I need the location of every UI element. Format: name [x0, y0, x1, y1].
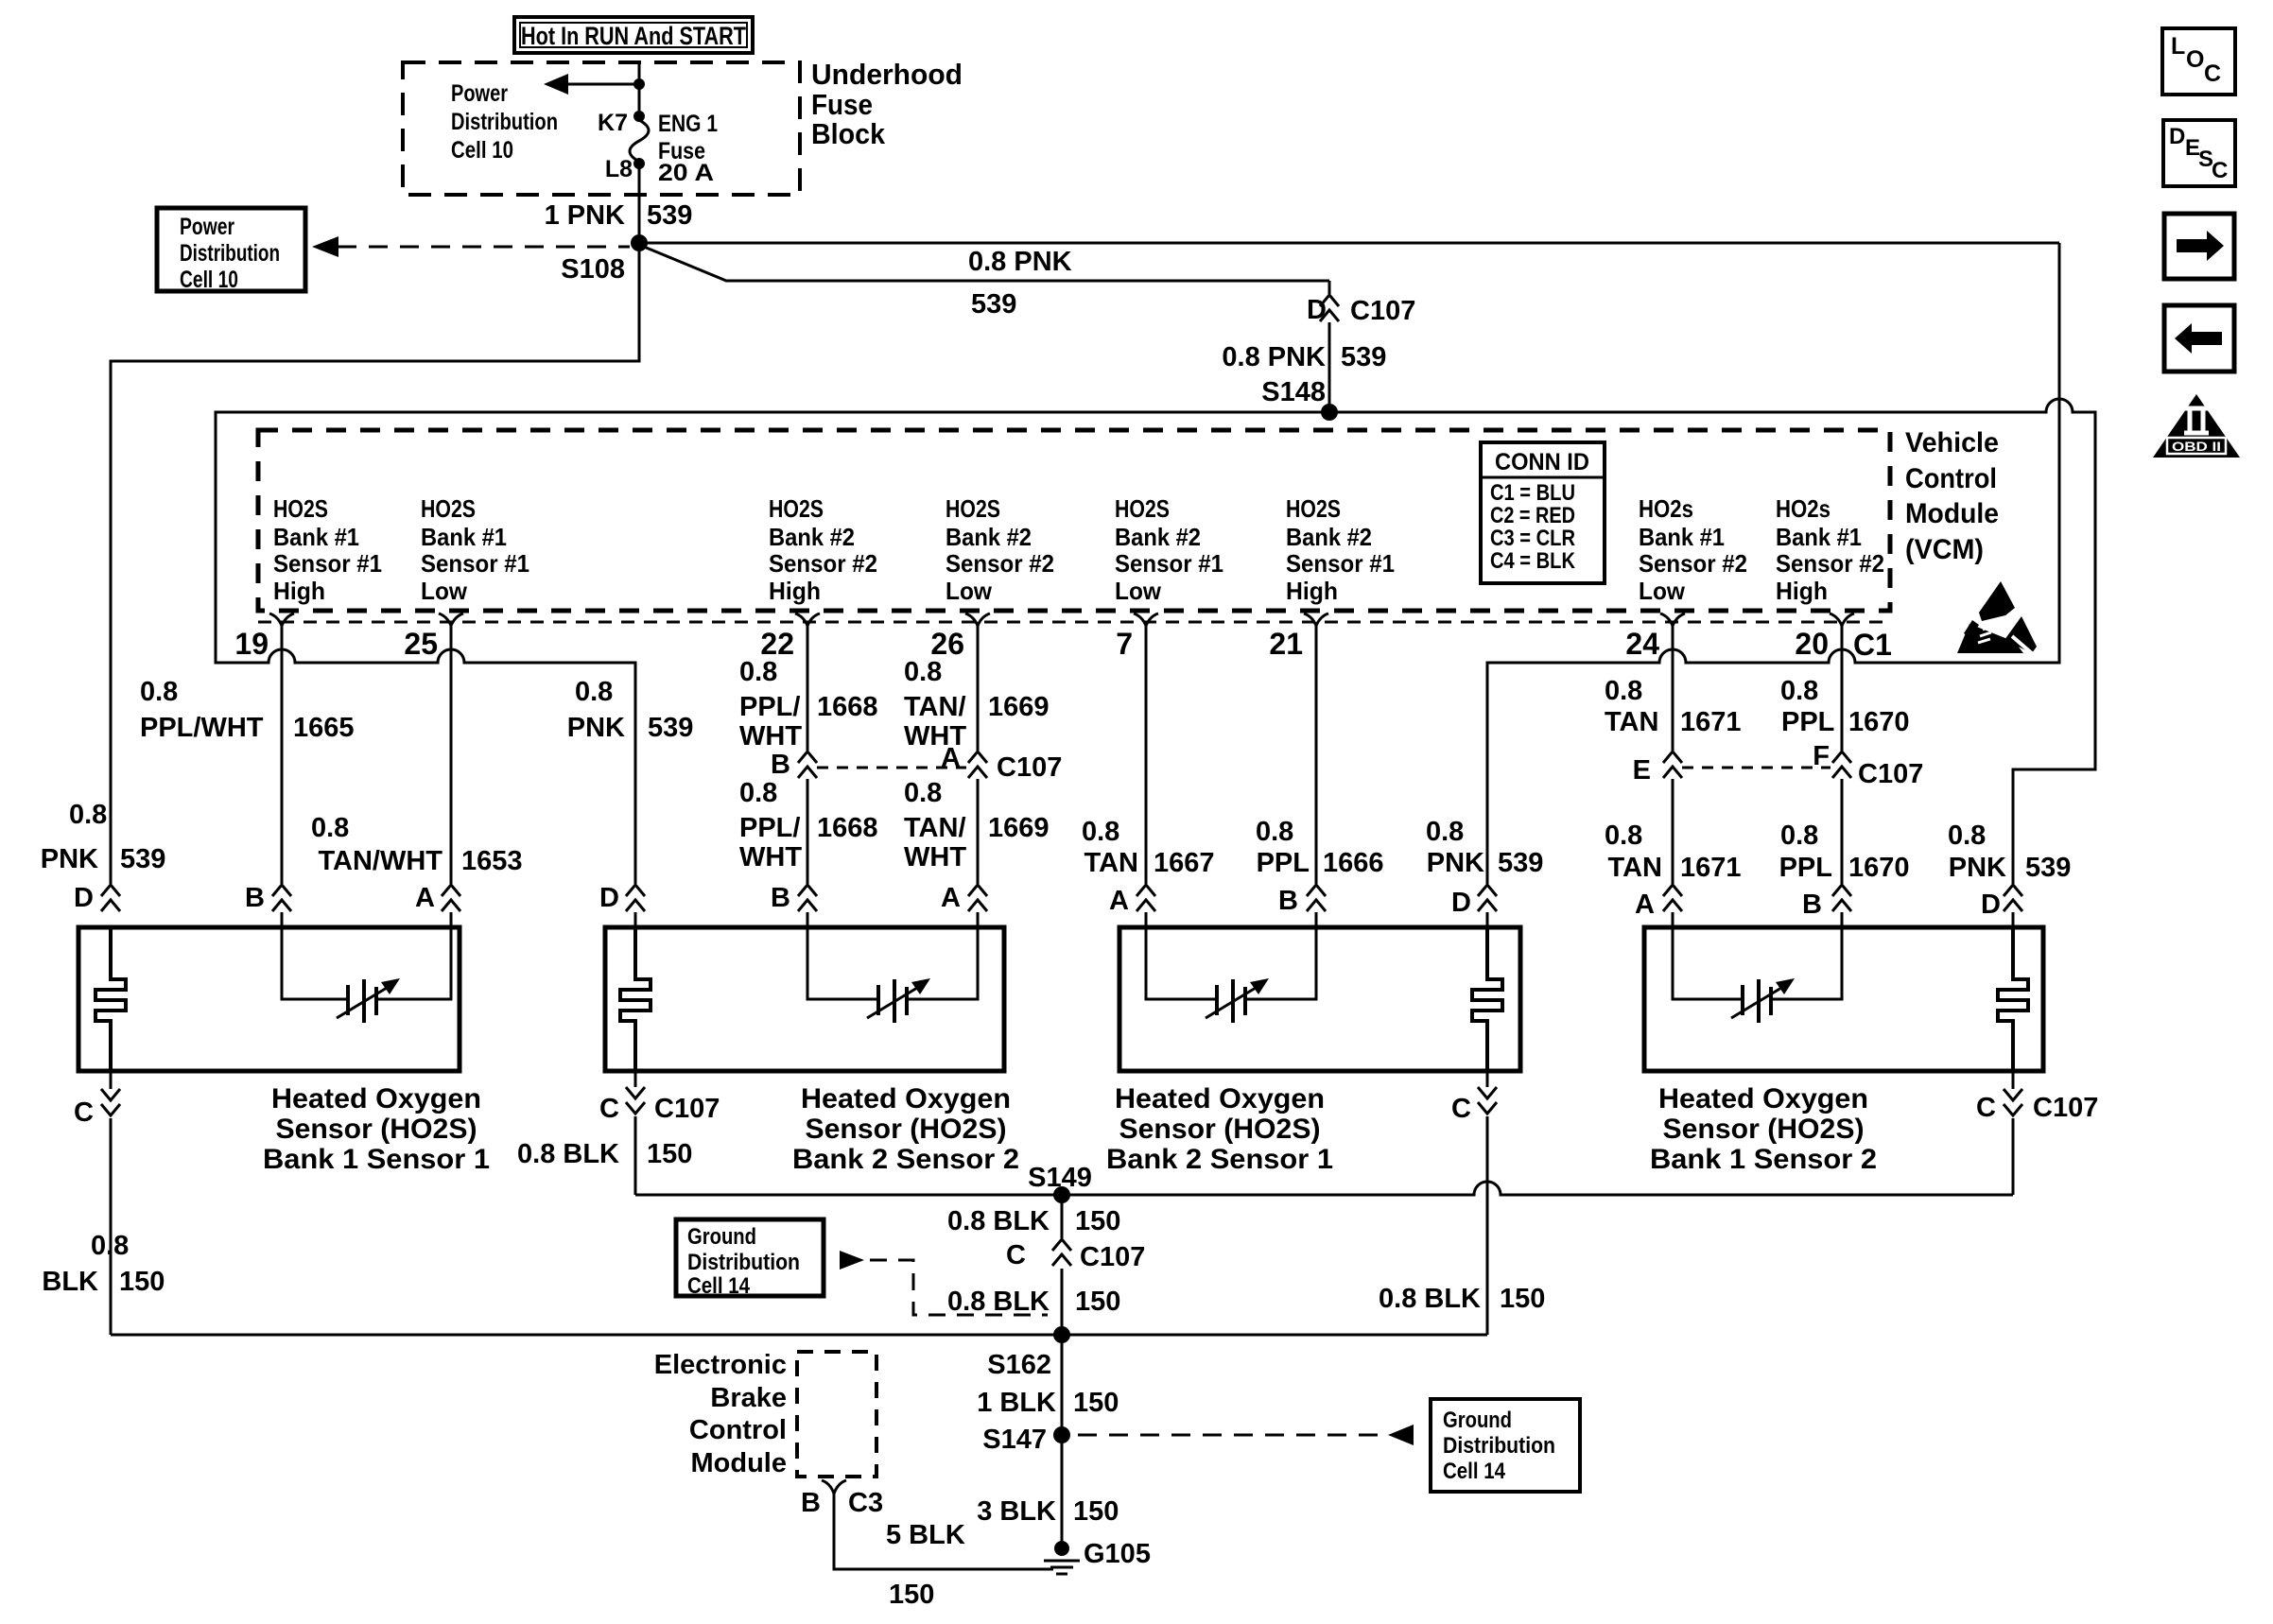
svg-text:TAN/: TAN/	[904, 813, 966, 843]
svg-text:Bank 2 Sensor 2: Bank 2 Sensor 2	[792, 1144, 1019, 1175]
sensor pin D chevrons at x=672	[626, 885, 645, 911]
svg-text:Heated Oxygen: Heated Oxygen	[1658, 1083, 1868, 1114]
svg-text:L: L	[2171, 33, 2185, 60]
svg-text:C4 = BLK: C4 = BLK	[1490, 548, 1576, 574]
svg-text:150: 150	[1075, 1206, 1120, 1236]
svg-text:0.8 BLK: 0.8 BLK	[517, 1139, 619, 1169]
svg-text:Bank 2 Sensor 1: Bank 2 Sensor 1	[1106, 1144, 1333, 1175]
svg-text:High: High	[1286, 577, 1338, 605]
svg-text:PNK: PNK	[1949, 853, 2006, 883]
label 0.8 PPL/WHT 1668 (pin 22 wire upper)	[739, 657, 878, 752]
svg-text:B: B	[801, 1488, 821, 1518]
dashed wire S108 to power distribution with arrow	[312, 236, 630, 257]
svg-text:0.8: 0.8	[69, 800, 107, 830]
sensor element wires and variable voltage cell between x=298 and x=477	[282, 927, 451, 1023]
label 0.8 PNK 539 (sensor 3 pin D)	[1426, 817, 1543, 878]
label 0.8 PPL/WHT 1668 (sensor 2 pin B lower)	[739, 778, 878, 872]
VCM pin 25 bracket	[439, 613, 463, 626]
icon forward arrow box	[2164, 214, 2234, 279]
splice S149 dot	[1053, 1186, 1070, 1203]
svg-text:C: C	[74, 1097, 94, 1128]
svg-text:1667: 1667	[1154, 848, 1215, 878]
svg-text:0.8: 0.8	[904, 778, 942, 808]
svg-text:TAN: TAN	[1608, 853, 1662, 883]
svg-text:Underhood: Underhood	[811, 58, 963, 91]
label 0.8 BLK 150 (sensor 2 ground)	[517, 1139, 692, 1169]
svg-text:C1 = BLU: C1 = BLU	[1490, 480, 1575, 506]
icon DESC box	[2163, 120, 2235, 186]
label 0.8 PPL 1670 (sensor 4 pin B lower)	[1779, 821, 1910, 883]
svg-text:Cell 10: Cell 10	[451, 137, 513, 164]
svg-text:Ground: Ground	[1443, 1408, 1512, 1433]
svg-text:150: 150	[119, 1267, 165, 1297]
svg-text:22: 22	[760, 627, 794, 661]
wire down to connector C107 pin D	[1328, 281, 1331, 294]
svg-text:21: 21	[1269, 627, 1303, 661]
label 0.8 BLK 150 (S149 to C107)	[947, 1206, 1120, 1236]
wire 0.8 BLK 150 from C107 down to S162	[1061, 1269, 1064, 1335]
svg-text:Control: Control	[689, 1415, 787, 1445]
svg-text:0.8: 0.8	[1082, 817, 1119, 847]
svg-text:0.8 BLK: 0.8 BLK	[947, 1287, 1050, 1317]
svg-text:539: 539	[648, 713, 693, 743]
svg-text:539: 539	[1341, 342, 1386, 372]
VCM internal label HO2S Bank #1 Sensor #1 Low	[421, 494, 529, 605]
svg-text:PPL/: PPL/	[739, 813, 800, 843]
ground rail S162 from sensor 1 to sensor 3 wire	[111, 1334, 1487, 1337]
label Power Distribution Cell 10 (in fuse block)	[451, 80, 558, 164]
svg-text:1670: 1670	[1848, 853, 1910, 883]
wire 0.8 PNK 539 from C107 D to S148	[1328, 322, 1331, 410]
svg-text:1668: 1668	[817, 813, 878, 843]
sensor 3 pin C chevrons	[1486, 1071, 1489, 1087]
svg-text:S148: S148	[1261, 377, 1326, 407]
svg-text:TAN: TAN	[1084, 848, 1138, 878]
svg-text:B: B	[771, 750, 790, 780]
svg-text:BLK: BLK	[42, 1267, 98, 1297]
svg-text:C: C	[1006, 1240, 1026, 1270]
label 1 BLK 150	[977, 1388, 1119, 1418]
underhood fuse block dashed box	[403, 62, 800, 195]
svg-text:Bank 1 Sensor 2: Bank 1 Sensor 2	[1650, 1144, 1877, 1175]
sensor pin A chevrons at x=1212	[1136, 885, 1155, 911]
label 0.8 PNK 539 (sensor 1 pin D)	[41, 800, 166, 874]
svg-text:S162: S162	[987, 1350, 1051, 1380]
svg-text:PPL: PPL	[1779, 853, 1832, 883]
label 0.8 PNK 539 (sensor 2 pin D feed)	[567, 677, 694, 743]
svg-text:150: 150	[1500, 1284, 1545, 1314]
label Heated Oxygen Sensor (HO2S) Bank 2 Sensor 1	[1106, 1083, 1333, 1175]
svg-text:Bank #2: Bank #2	[769, 523, 855, 551]
svg-text:Hot In RUN And START: Hot In RUN And START	[521, 22, 746, 50]
svg-text:1 BLK: 1 BLK	[977, 1388, 1056, 1418]
svg-text:High: High	[273, 577, 325, 605]
svg-text:WHT: WHT	[739, 721, 802, 752]
wire pin 25 to sensor 1 pin A (0.8 TAN/WHT 1653)	[450, 624, 453, 927]
sensor 2 pin C chevrons and C107	[634, 1071, 637, 1087]
wire pin 22 to sensor 2 pin B (0.8 PPL/WHT 1668)	[807, 624, 809, 927]
svg-text:150: 150	[647, 1139, 692, 1169]
svg-text:CONN ID: CONN ID	[1495, 449, 1589, 475]
svg-text:TAN/: TAN/	[904, 692, 966, 722]
svg-text:C107: C107	[2033, 1093, 2098, 1123]
svg-text:Low: Low	[946, 577, 993, 605]
VCM internal label HO2S Bank #2 Sensor #2 Low	[946, 494, 1054, 605]
svg-text:Sensor (HO2S): Sensor (HO2S)	[1663, 1114, 1865, 1145]
svg-text:0.8: 0.8	[739, 778, 777, 808]
power distribution cell 10 box (left)	[157, 208, 305, 291]
heater element inside sensor at x=2129	[1998, 927, 2028, 1071]
wire 5 BLK 150 from EBCM to G105	[834, 1492, 1053, 1569]
svg-text:Sensor #1: Sensor #1	[421, 549, 529, 578]
VCM internal label HO2s Bank #1 Sensor #2 High	[1776, 494, 1884, 605]
svg-text:0.8: 0.8	[575, 677, 613, 707]
heated oxygen sensor box Bank 2 Sensor 2	[605, 927, 1004, 1071]
svg-text:PNK: PNK	[41, 844, 98, 874]
svg-text:Control: Control	[1905, 463, 1997, 494]
connector C107 pin A chevrons	[968, 752, 987, 778]
svg-text:0.8: 0.8	[1780, 821, 1818, 851]
label Underhood Fuse Block	[811, 58, 963, 150]
dashed ground reference wire with arrow (left)	[840, 1251, 1048, 1315]
svg-text:Bank #1: Bank #1	[273, 523, 359, 551]
svg-text:Distribution: Distribution	[687, 1250, 800, 1275]
svg-text:539: 539	[120, 844, 165, 874]
wire pin 21 to sensor 3 pin B (0.8 PPL 1666)	[1315, 624, 1318, 927]
svg-text:Sensor (HO2S): Sensor (HO2S)	[806, 1114, 1007, 1145]
svg-text:Bank #1: Bank #1	[1776, 523, 1862, 551]
svg-text:1671: 1671	[1680, 707, 1742, 737]
svg-text:O: O	[2186, 46, 2204, 73]
VCM connector face dashed line	[258, 621, 1890, 624]
svg-text:HO2S: HO2S	[1286, 494, 1341, 523]
svg-text:A: A	[941, 883, 961, 913]
svg-text:B: B	[771, 883, 790, 913]
wire 0.8 PNK 539 top rail from S108 to right edge	[639, 242, 2059, 245]
svg-text:Sensor #2: Sensor #2	[946, 549, 1054, 578]
svg-text:Sensor (HO2S): Sensor (HO2S)	[276, 1114, 477, 1145]
ground rail joining sensor 2, S149 and sensor 4, hump over sensor 3 wire	[635, 1182, 2013, 1195]
VCM pin 20 bracket	[1830, 613, 1854, 626]
svg-text:0.8: 0.8	[140, 677, 178, 707]
svg-text:PPL/: PPL/	[739, 692, 800, 722]
wire sensor 3 pin D stub below chevrons	[1486, 912, 1489, 927]
svg-text:Bank #1: Bank #1	[1639, 523, 1725, 551]
label Heated Oxygen Sensor (HO2S) Bank 1 Sensor 1	[263, 1083, 490, 1175]
label 0.8 BLK 150 (C107 to S162)	[947, 1287, 1120, 1317]
svg-text:Fuse: Fuse	[811, 88, 873, 121]
svg-text:Heated Oxygen: Heated Oxygen	[1115, 1083, 1325, 1114]
svg-text:C: C	[2212, 158, 2228, 183]
svg-text:D: D	[1451, 888, 1471, 918]
svg-text:High: High	[1776, 577, 1828, 605]
icon LOC box	[2162, 28, 2235, 95]
svg-text:High: High	[769, 577, 821, 605]
svg-text:25: 25	[404, 627, 438, 661]
svg-text:Sensor #1: Sensor #1	[1286, 549, 1395, 578]
svg-text:C1: C1	[1853, 628, 1892, 662]
heated oxygen sensor box Bank 1 Sensor 2	[1644, 927, 2043, 1071]
label 0.8 TAN 1671 (sensor 4 pin A lower)	[1605, 821, 1742, 883]
connector C107 pin F chevrons	[1832, 752, 1851, 778]
connector C107 pin C chevrons (ground)	[1052, 1239, 1071, 1266]
svg-text:Bank #1: Bank #1	[421, 523, 507, 551]
svg-text:D: D	[1981, 890, 2001, 920]
VCM internal label HO2s Bank #1 Sensor #2 Low	[1639, 494, 1747, 605]
connector C3 pin B bracket	[822, 1480, 846, 1494]
splice S162 dot	[1053, 1326, 1070, 1343]
svg-text:D: D	[2169, 124, 2185, 149]
wire PNK 539 from S148 right then down to sensor 4 pin D, hump over vertical feed	[1329, 399, 2095, 884]
arrow to power distribution inside fuse block	[544, 74, 639, 95]
svg-text:C107: C107	[1858, 759, 1923, 789]
svg-text:539: 539	[971, 289, 1016, 320]
svg-text:B: B	[245, 883, 265, 913]
svg-text:Bank 1 Sensor 1: Bank 1 Sensor 1	[263, 1144, 490, 1175]
VCM internal label HO2S Bank #2 Sensor #2 High	[769, 494, 877, 605]
svg-text:HO2S: HO2S	[421, 494, 476, 523]
svg-text:PPL: PPL	[1257, 848, 1310, 878]
label ENG 1 Fuse 20 A	[658, 111, 718, 186]
VCM internal label HO2S Bank #1 Sensor #1 High	[273, 494, 382, 605]
splice S147 dot	[1053, 1426, 1070, 1443]
connector C107 dashed boundary (B-A)	[817, 767, 966, 769]
svg-text:539: 539	[647, 200, 692, 231]
svg-text:0.8: 0.8	[1605, 821, 1642, 851]
wire 0.8 BLK 150 sensor 1 ground to S162 rail	[110, 1118, 113, 1335]
label 0.8 PNK 539 (sensor 4 pin D)	[1948, 821, 2071, 883]
label 0.8 BLK 150 (left)	[42, 1231, 165, 1297]
heated oxygen sensor box Bank 2 Sensor 1	[1119, 927, 1520, 1071]
label 3 BLK 150	[977, 1496, 1119, 1527]
svg-text:HO2S: HO2S	[273, 494, 328, 523]
svg-text:HO2S: HO2S	[1115, 494, 1170, 523]
label Power Distribution Cell 10 (left box)	[180, 214, 280, 293]
svg-text:C: C	[599, 1094, 619, 1124]
svg-text:OBD II: OBD II	[2172, 439, 2221, 454]
svg-text:Bank #2: Bank #2	[946, 523, 1032, 551]
svg-text:150: 150	[889, 1580, 934, 1610]
svg-text:20: 20	[1795, 627, 1829, 661]
svg-text:S108: S108	[561, 254, 625, 285]
connector C107 pin E chevrons	[1663, 752, 1682, 778]
svg-text:1668: 1668	[817, 692, 878, 722]
svg-text:Module: Module	[691, 1448, 788, 1478]
svg-text:0.8: 0.8	[1780, 676, 1818, 706]
wire pin 19 to sensor 1 pin B (0.8 PPL/WHT 1665)	[281, 624, 284, 927]
wire PNK 539 from S148 left then down to sensor 2 pin D, humps over pins 19 and 25	[216, 412, 1329, 884]
svg-text:1653: 1653	[461, 846, 523, 876]
svg-text:C107: C107	[1350, 296, 1415, 326]
sensor 4 pin C chevrons and C107	[2012, 1071, 2015, 1089]
svg-text:1671: 1671	[1680, 853, 1742, 883]
svg-text:TAN/WHT: TAN/WHT	[318, 846, 442, 876]
heater element inside sensor at x=1573	[1472, 927, 1502, 1071]
heater element inside sensor at x=117	[95, 927, 126, 1071]
svg-text:D: D	[74, 883, 94, 913]
splice S148 dot	[1321, 404, 1338, 421]
svg-text:150: 150	[1075, 1287, 1120, 1317]
svg-text:5 BLK: 5 BLK	[886, 1520, 965, 1550]
sensor element wires and variable voltage cell between x=854 and x=1034	[807, 927, 978, 1023]
svg-text:HO2s: HO2s	[1639, 494, 1693, 523]
svg-text:Sensor #2: Sensor #2	[1776, 549, 1884, 578]
svg-text:Distribution: Distribution	[180, 240, 280, 267]
wire pin 7 to sensor 3 pin A (0.8 TAN 1667)	[1145, 624, 1148, 927]
svg-text:150: 150	[1073, 1388, 1119, 1418]
svg-text:Power: Power	[180, 214, 234, 240]
svg-text:Electronic: Electronic	[654, 1350, 787, 1380]
label 0.8 TAN/WHT 1653 (sensor 1 pin A)	[311, 813, 523, 876]
svg-text:0.8: 0.8	[904, 657, 942, 687]
svg-text:Module: Module	[1905, 498, 1999, 529]
svg-text:PPL: PPL	[1781, 707, 1834, 737]
svg-text:Cell 14: Cell 14	[1443, 1459, 1506, 1484]
sensor pin B chevrons at x=1392	[1307, 885, 1326, 911]
label Heated Oxygen Sensor (HO2S) Bank 2 Sensor 2	[792, 1083, 1019, 1175]
svg-text:C2 = RED: C2 = RED	[1490, 503, 1575, 528]
svg-text:24: 24	[1625, 627, 1659, 661]
svg-text:1666: 1666	[1323, 848, 1384, 878]
label 0.8 PPL 1666 (sensor 3 pin B)	[1256, 817, 1384, 878]
label 0.8 TAN 1667 (sensor 3 pin A)	[1082, 817, 1215, 878]
svg-text:B: B	[1278, 886, 1298, 916]
svg-text:0.8: 0.8	[1948, 821, 1986, 851]
icon back arrow box	[2164, 305, 2234, 371]
label 0.8 TAN 1671 (pin 24 wire upper)	[1605, 676, 1742, 737]
sensor pin B chevrons at x=298	[272, 885, 291, 911]
svg-text:PNK: PNK	[1427, 848, 1484, 878]
svg-text:Sensor #1: Sensor #1	[273, 549, 382, 578]
label Vehicle Control Module (VCM)	[1905, 427, 1999, 565]
label 0.8 TAN/WHT 1669 (pin 26 wire upper)	[904, 657, 1050, 752]
sensor element wires and variable voltage cell between x=1212 and x=1392	[1146, 927, 1316, 1023]
sensor element wires and variable voltage cell between x=1769 and x=1948	[1673, 927, 1842, 1023]
ground distribution cell 14 box (left)	[676, 1219, 824, 1296]
ground distribution cell 14 box (right)	[1431, 1399, 1580, 1492]
connector C107 pin D chevrons	[1320, 295, 1339, 321]
wire pin 24 to sensor 4 pin A (0.8 TAN 1671)	[1672, 624, 1674, 927]
svg-text:Block: Block	[811, 117, 886, 150]
ESD sensitivity symbol	[1957, 581, 2037, 654]
label 0.8 TAN/WHT 1669 (sensor 2 pin A lower)	[904, 778, 1050, 872]
sensor pin D chevrons at x=2129	[2004, 885, 2022, 911]
VCM internal label HO2S Bank #2 Sensor #1 Low	[1115, 494, 1223, 605]
sensor pin A chevrons at x=477	[442, 885, 460, 911]
svg-text:26: 26	[930, 627, 964, 661]
svg-text:C107: C107	[654, 1094, 720, 1124]
svg-text:C107: C107	[1080, 1242, 1145, 1272]
wire pin 26 to sensor 2 pin A (0.8 TAN/WHT 1669)	[977, 624, 980, 927]
VCM pin 22 bracket	[795, 613, 820, 626]
wire sensor 2 pin D stub below chevrons	[634, 912, 637, 927]
svg-text:Low: Low	[1639, 577, 1686, 605]
vehicle control module dashed box	[258, 430, 1890, 611]
svg-text:0.8: 0.8	[739, 657, 777, 687]
svg-text:3 BLK: 3 BLK	[977, 1496, 1056, 1527]
svg-text:0.8 BLK: 0.8 BLK	[947, 1206, 1050, 1236]
svg-text:C: C	[1976, 1093, 1996, 1123]
svg-text:D: D	[599, 883, 619, 913]
svg-text:PNK: PNK	[567, 713, 625, 743]
svg-text:TAN: TAN	[1605, 707, 1658, 737]
wire sensor 4 pin D stub below chevrons	[2012, 912, 2015, 927]
svg-text:20 A: 20 A	[658, 160, 714, 186]
svg-text:Low: Low	[421, 577, 468, 605]
svg-text:Sensor (HO2S): Sensor (HO2S)	[1119, 1114, 1321, 1145]
svg-text:Sensor #2: Sensor #2	[1639, 549, 1747, 578]
wire PNK 539 from S108 down and left to sensor 1 pin D	[111, 251, 639, 884]
svg-text:0.8 BLK: 0.8 BLK	[1379, 1284, 1481, 1314]
terminal K7 dot	[633, 111, 645, 122]
terminal L8 dot	[633, 158, 645, 169]
label 1 PNK 539	[545, 200, 693, 231]
wire 0.8 BLK 150 sensor 2 ground down to S149 rail	[634, 1116, 637, 1195]
svg-text:Sensor #1: Sensor #1	[1115, 549, 1223, 578]
svg-text:K7: K7	[598, 110, 628, 136]
svg-text:1669: 1669	[988, 813, 1050, 843]
VCM internal label HO2S Bank #2 Sensor #1 High	[1286, 494, 1395, 605]
heated oxygen sensor box Bank 1 Sensor 1	[78, 927, 460, 1071]
svg-text:Cell 10: Cell 10	[180, 267, 238, 293]
svg-text:Heated Oxygen: Heated Oxygen	[801, 1083, 1011, 1114]
svg-text:C3: C3	[848, 1488, 883, 1518]
VCM pin 21 bracket	[1304, 613, 1328, 626]
svg-text:A: A	[1109, 886, 1129, 916]
svg-text:1 PNK: 1 PNK	[545, 200, 625, 231]
svg-text:G105: G105	[1084, 1539, 1151, 1569]
fuse ENG 1 20 A element	[630, 120, 649, 162]
svg-text:0.8: 0.8	[91, 1231, 129, 1261]
svg-text:WHT: WHT	[739, 842, 802, 872]
svg-text:C: C	[2204, 60, 2221, 87]
svg-text:539: 539	[1498, 848, 1543, 878]
heater element inside sensor at x=672	[620, 927, 651, 1071]
svg-text:WHT: WHT	[904, 842, 966, 872]
svg-text:A: A	[415, 883, 435, 913]
svg-text:Sensor #2: Sensor #2	[769, 549, 877, 578]
label 0.8 PPL/WHT 1665 (pin 19 wire)	[140, 677, 355, 743]
CONN ID table box	[1481, 442, 1605, 583]
svg-text:Bank #2: Bank #2	[1286, 523, 1372, 551]
connector C107 pin B chevrons	[798, 752, 817, 778]
svg-text:Cell 14: Cell 14	[687, 1273, 751, 1299]
svg-text:Bank #2: Bank #2	[1115, 523, 1201, 551]
sensor pin D chevrons at x=117	[101, 885, 120, 911]
svg-text:Distribution: Distribution	[451, 109, 558, 135]
junction dot on fuse feed	[633, 78, 645, 90]
ground G105 symbol	[1044, 1541, 1080, 1574]
svg-text:HO2S: HO2S	[946, 494, 1000, 523]
wire 0.8 BLK 150 from S149 down to C107 pin C	[1061, 1195, 1064, 1238]
svg-text:0.8: 0.8	[1256, 817, 1293, 847]
svg-text:HO2S: HO2S	[769, 494, 824, 523]
label box Hot In RUN And START	[514, 17, 753, 53]
svg-text:Ground: Ground	[687, 1224, 756, 1250]
splice S108 dot	[631, 234, 648, 251]
svg-text:Distribution: Distribution	[1443, 1433, 1555, 1459]
sensor pin A chevrons at x=1034	[968, 885, 987, 911]
VCM pin 24 bracket	[1660, 613, 1685, 626]
svg-text:PPL/WHT: PPL/WHT	[140, 713, 264, 743]
wire 1 BLK 150 from S162 down to S147	[1061, 1335, 1064, 1435]
wire from Hot In RUN into fuse block	[638, 60, 641, 84]
label Electronic Brake Control Module	[654, 1350, 787, 1478]
wire pin 20 to sensor 4 pin B (0.8 PPL 1670)	[1841, 624, 1844, 927]
icon OBD II triangle	[2153, 394, 2240, 458]
label 0.8 PNK 539 (S148 wire)	[1222, 342, 1386, 372]
svg-text:B: B	[1802, 890, 1822, 920]
